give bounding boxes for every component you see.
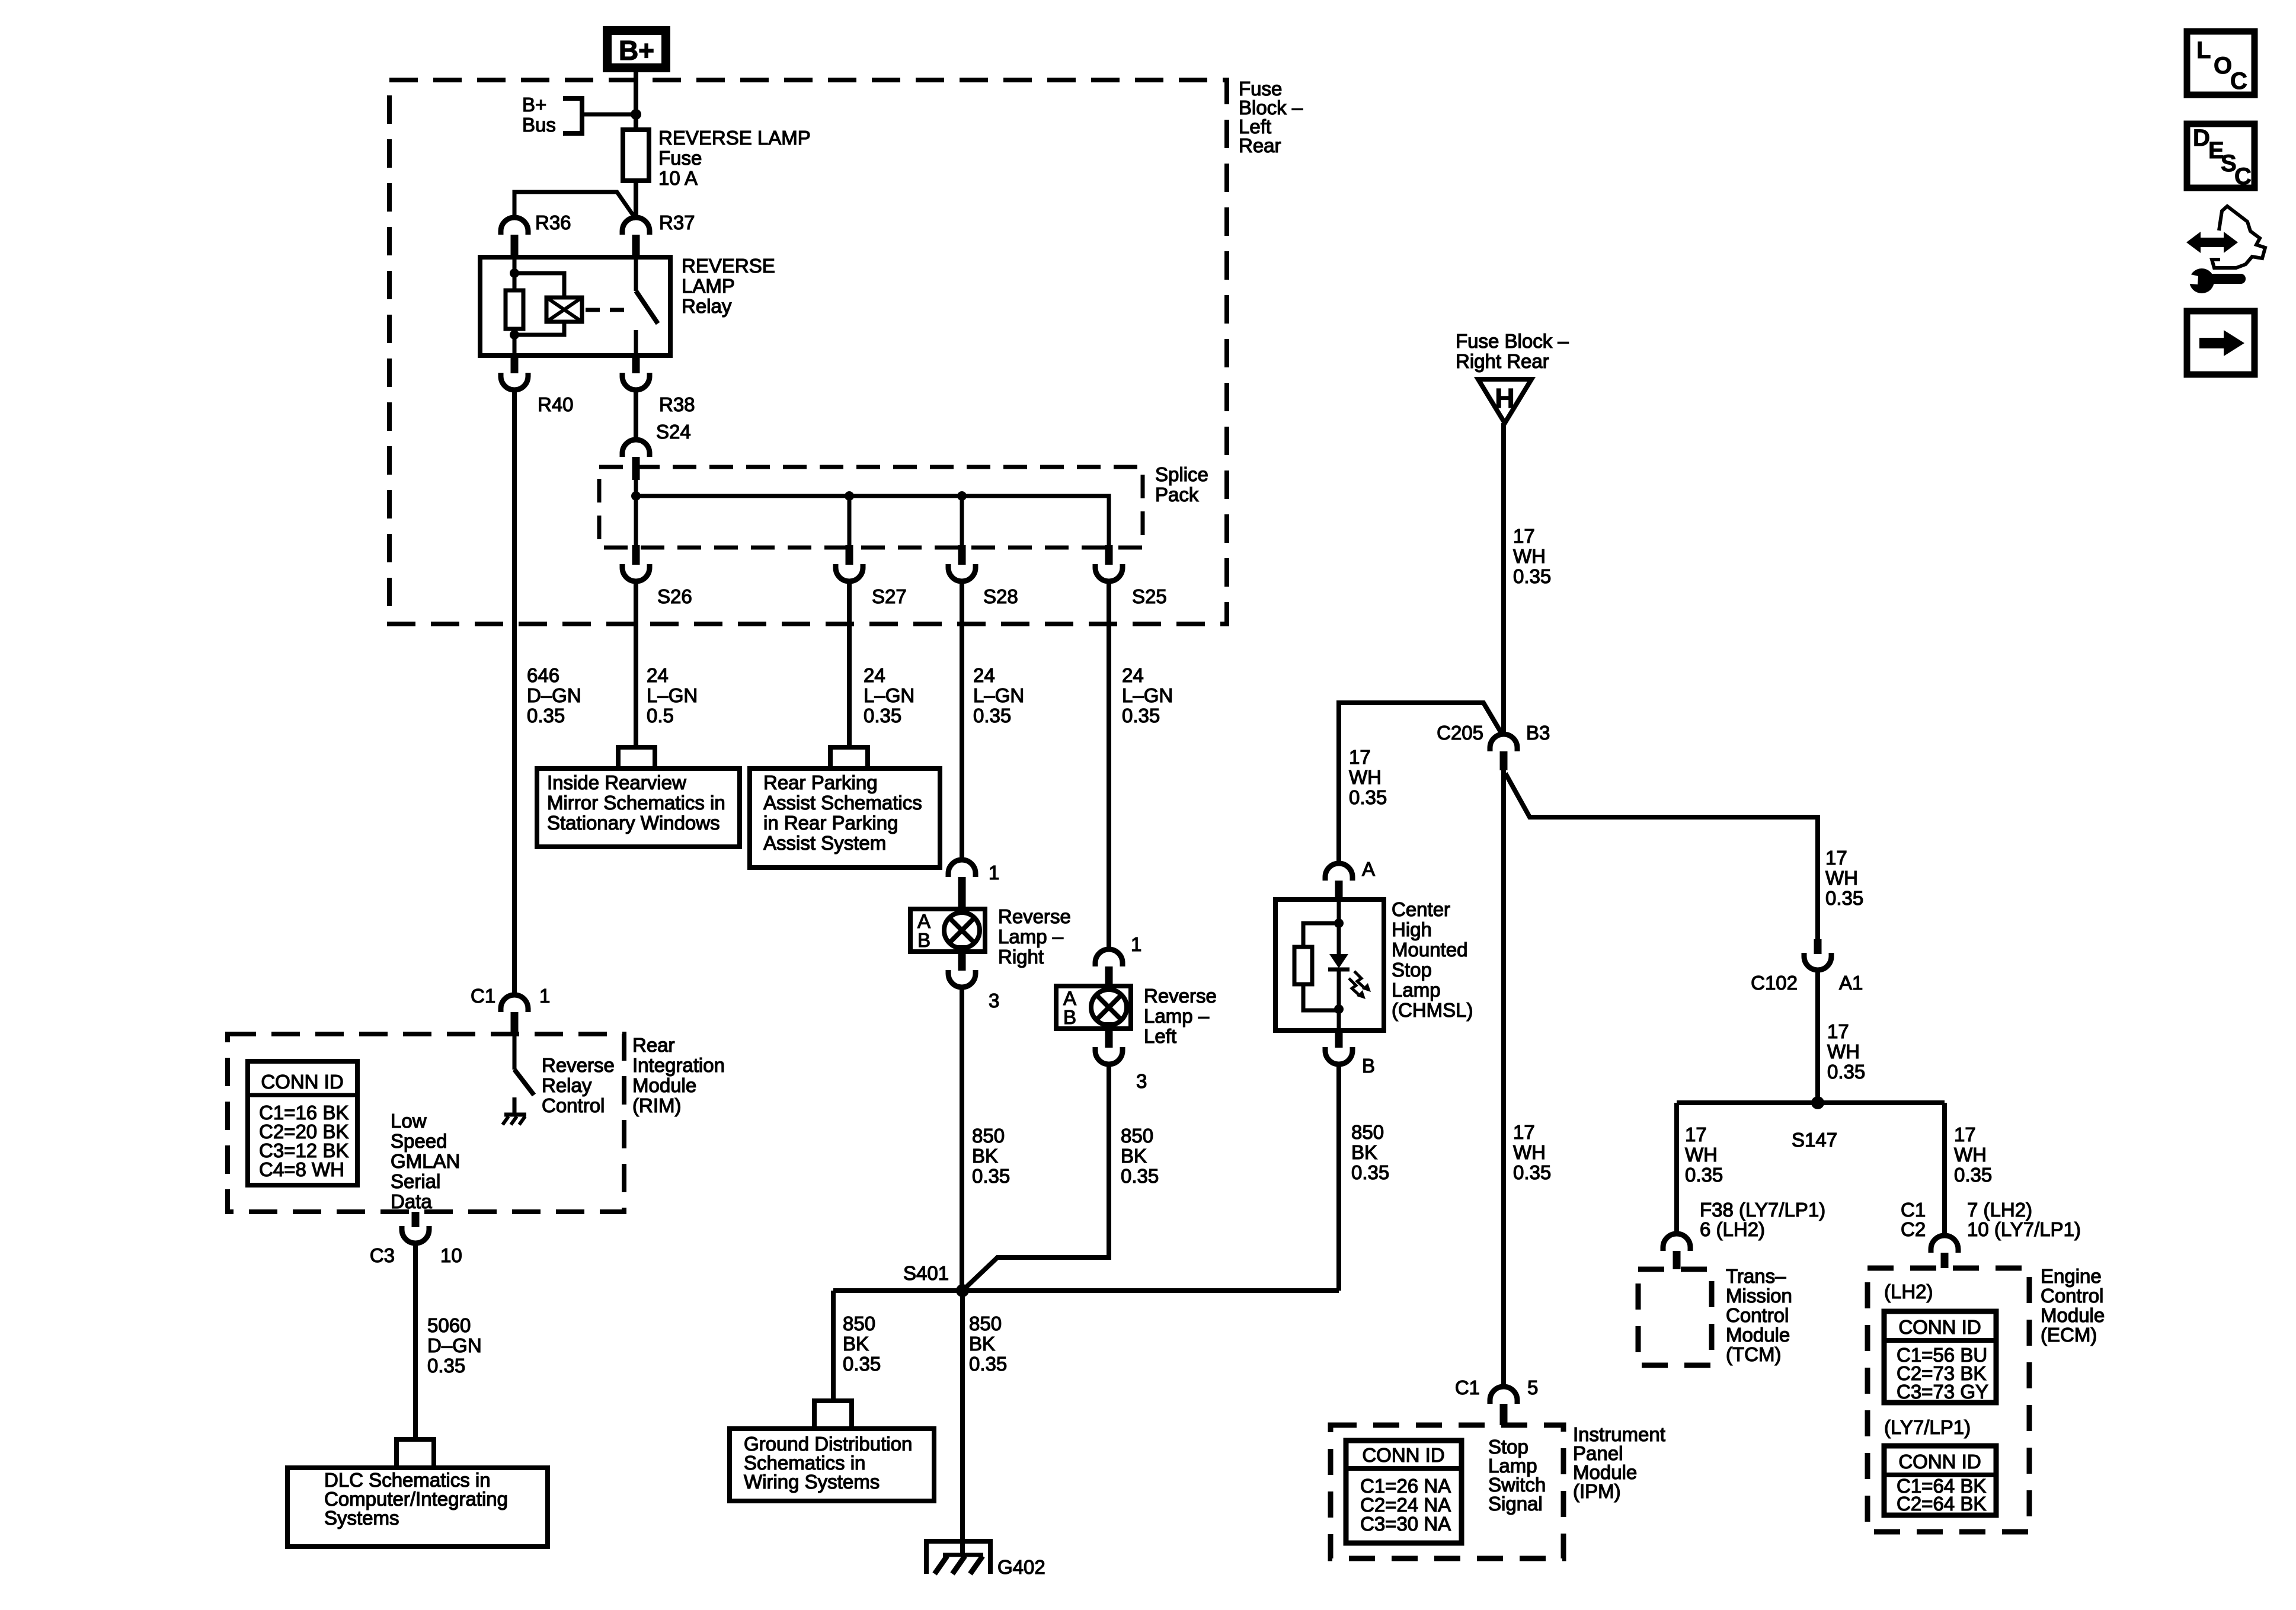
svg-text:0.35: 0.35 <box>1351 1161 1389 1183</box>
svg-text:Right Rear: Right Rear <box>1456 350 1549 372</box>
svg-text:Module: Module <box>2041 1304 2105 1326</box>
svg-text:5060: 5060 <box>427 1314 471 1336</box>
svg-text:1: 1 <box>539 985 550 1007</box>
svg-text:Module: Module <box>1726 1324 1790 1346</box>
svg-text:Relay: Relay <box>682 295 732 317</box>
ground G402 <box>926 1541 990 1574</box>
junction splice S26 <box>631 491 641 501</box>
rear parking assist schematics box <box>750 769 940 868</box>
svg-text:D–GN: D–GN <box>427 1334 482 1356</box>
svg-text:C1: C1 <box>471 985 495 1007</box>
svg-text:WH: WH <box>1685 1144 1718 1166</box>
svg-text:10 (LY7/LP1): 10 (LY7/LP1) <box>1967 1218 2081 1240</box>
svg-text:Trans–: Trans– <box>1726 1265 1786 1287</box>
svg-text:Stop: Stop <box>1392 959 1432 981</box>
svg-text:Pack: Pack <box>1155 484 1199 505</box>
svg-text:Assist System: Assist System <box>763 832 886 854</box>
wire R38 to S24 <box>634 390 638 440</box>
svg-text:BK: BK <box>843 1333 869 1355</box>
connector ECM <box>1931 1235 1958 1253</box>
svg-text:17: 17 <box>1954 1124 1976 1145</box>
icon DESC <box>2187 124 2255 188</box>
svg-text:0.35: 0.35 <box>1513 565 1551 587</box>
svg-text:0.35: 0.35 <box>973 705 1011 726</box>
svg-text:0.35: 0.35 <box>1121 1165 1159 1187</box>
svg-text:Lamp –: Lamp – <box>1144 1005 1210 1027</box>
svg-text:B: B <box>1063 1006 1076 1028</box>
relay actuation dashed link <box>586 308 627 312</box>
svg-text:850: 850 <box>1351 1121 1384 1143</box>
svg-text:C3=30 NA: C3=30 NA <box>1360 1513 1451 1535</box>
svg-text:S28: S28 <box>983 585 1018 607</box>
wire left lamp to S401 <box>962 1064 1109 1291</box>
svg-text:C4=8 WH: C4=8 WH <box>259 1158 344 1180</box>
svg-text:Low: Low <box>391 1110 427 1132</box>
icon wrench <box>2189 268 2214 293</box>
svg-text:B+: B+ <box>619 35 654 66</box>
svg-text:Engine: Engine <box>2041 1265 2102 1287</box>
svg-text:5: 5 <box>1527 1377 1538 1398</box>
connector B CHMSL <box>1335 1030 1343 1048</box>
svg-text:Rear Parking: Rear Parking <box>763 772 878 793</box>
svg-text:WH: WH <box>1827 1041 1860 1062</box>
svg-text:R40: R40 <box>538 393 574 415</box>
TCM dashed outline <box>1638 1269 1712 1365</box>
connector TCM <box>1663 1234 1690 1251</box>
svg-text:WH: WH <box>1954 1144 1987 1166</box>
svg-text:0.35: 0.35 <box>864 705 901 726</box>
connector pin 1 right lamp <box>948 860 976 877</box>
svg-text:24: 24 <box>864 664 885 686</box>
svg-text:24: 24 <box>973 664 995 686</box>
relay coil branch wire <box>513 257 517 290</box>
connector R38 <box>632 356 640 373</box>
svg-text:850: 850 <box>843 1313 875 1334</box>
ground inside RIM <box>513 1097 517 1114</box>
svg-text:(TCM): (TCM) <box>1726 1343 1781 1365</box>
svg-text:WH: WH <box>1513 1141 1546 1163</box>
svg-text:Center: Center <box>1392 898 1450 920</box>
svg-text:WH: WH <box>1825 867 1858 889</box>
junction splice S27 <box>845 491 854 501</box>
svg-text:(CHMSL): (CHMSL) <box>1392 999 1473 1021</box>
svg-text:BK: BK <box>1121 1145 1147 1167</box>
wire 5060 to DLC <box>413 1243 418 1439</box>
connector C102 A1 <box>1814 939 1822 954</box>
svg-text:L: L <box>2196 37 2211 63</box>
relay REVERSE LAMP box <box>480 257 670 356</box>
svg-text:0.35: 0.35 <box>1825 887 1863 909</box>
wire coil bottom return <box>514 322 564 335</box>
CHMSL light emission arrows <box>1354 971 1364 987</box>
svg-text:A: A <box>1362 858 1375 880</box>
connector A CHMSL <box>1325 863 1352 881</box>
wire S401 to G402 <box>960 1291 965 1554</box>
svg-text:BK: BK <box>969 1333 995 1355</box>
svg-text:0.35: 0.35 <box>1349 786 1387 808</box>
svg-text:0.35: 0.35 <box>972 1165 1010 1187</box>
CHMSL LED diode <box>1329 954 1348 968</box>
svg-text:0.35: 0.35 <box>843 1353 881 1375</box>
junction CHMSL bottom <box>1334 1004 1344 1014</box>
svg-text:Serial: Serial <box>391 1170 440 1192</box>
svg-text:Control: Control <box>542 1094 605 1116</box>
IPM dashed outline <box>1331 1425 1563 1558</box>
svg-text:B: B <box>917 929 930 951</box>
svg-text:in Rear Parking: in Rear Parking <box>763 812 898 834</box>
svg-text:GMLAN: GMLAN <box>391 1150 460 1172</box>
connector S27 <box>846 545 853 565</box>
svg-text:Integration: Integration <box>632 1054 725 1076</box>
svg-text:(IPM): (IPM) <box>1573 1480 1621 1502</box>
svg-text:REVERSE LAMP: REVERSE LAMP <box>658 127 811 149</box>
wire fuse to relay pins <box>634 181 638 217</box>
wire S26 to mirror box <box>634 581 638 747</box>
svg-text:D–GN: D–GN <box>527 684 581 706</box>
svg-text:CONN ID: CONN ID <box>1362 1444 1444 1466</box>
svg-text:CONN ID: CONN ID <box>1898 1451 1981 1473</box>
connector S25 <box>1105 545 1113 565</box>
svg-text:Fuse: Fuse <box>658 147 702 169</box>
svg-text:Control: Control <box>1726 1304 1789 1326</box>
reverse relay control switch <box>513 1036 517 1070</box>
fuse block left rear dashed outline <box>389 80 1227 624</box>
svg-text:L–GN: L–GN <box>973 684 1024 706</box>
junction B+ bus <box>631 109 641 120</box>
svg-text:17: 17 <box>1825 847 1847 869</box>
resistor in relay <box>506 290 523 329</box>
svg-text:Speed: Speed <box>391 1130 447 1152</box>
svg-text:3: 3 <box>989 990 999 1012</box>
connector pin 1 left lamp <box>1095 949 1123 966</box>
svg-text:Right: Right <box>998 946 1044 968</box>
svg-text:S24: S24 <box>656 421 691 443</box>
wire S25 to left lamp <box>1107 581 1111 949</box>
junction splice S28 <box>957 491 967 501</box>
splice S147 <box>1811 1096 1824 1109</box>
svg-text:C: C <box>2234 164 2252 190</box>
svg-text:S401: S401 <box>903 1262 949 1284</box>
wire branch to R36 <box>514 192 636 219</box>
svg-text:BK: BK <box>972 1145 998 1167</box>
ground distribution schematics box <box>730 1429 934 1501</box>
connector pin 3 right lamp <box>958 945 966 971</box>
icon next arrow <box>2187 311 2255 375</box>
connector pin 3 left lamp <box>1105 1022 1113 1048</box>
connector S24 <box>622 440 650 457</box>
wire H to C205 <box>1501 423 1506 734</box>
svg-text:6 (LH2): 6 (LH2) <box>1700 1218 1765 1240</box>
svg-text:R38: R38 <box>659 393 695 415</box>
wire S27 to parking box <box>847 581 852 747</box>
splice S401 <box>956 1284 969 1297</box>
svg-text:CONN ID: CONN ID <box>261 1071 343 1093</box>
svg-text:REVERSE: REVERSE <box>682 255 775 277</box>
svg-text:850: 850 <box>1121 1125 1153 1147</box>
svg-text:L–GN: L–GN <box>1122 684 1173 706</box>
wire branch to CHMSL A <box>1339 703 1502 863</box>
wire S28 to right lamp <box>960 581 964 860</box>
junction coil bottom <box>510 330 519 340</box>
svg-text:17: 17 <box>1513 1121 1535 1143</box>
svg-text:Control: Control <box>2041 1285 2103 1307</box>
svg-text:Fuse Block –: Fuse Block – <box>1456 330 1569 352</box>
svg-text:3: 3 <box>1136 1070 1147 1092</box>
svg-text:Mounted: Mounted <box>1392 939 1467 961</box>
svg-text:Rear: Rear <box>632 1034 675 1056</box>
svg-text:0.35: 0.35 <box>1954 1164 1992 1186</box>
IPM CONN ID table <box>1346 1441 1462 1543</box>
fuse block right rear terminal H <box>1478 379 1531 423</box>
inside rearview mirror schematics box <box>537 769 740 847</box>
svg-text:Reverse: Reverse <box>998 905 1071 927</box>
wire to ground distribution <box>831 1291 836 1401</box>
icon harness outline <box>2212 206 2265 268</box>
connector bracket ground distribution box <box>814 1401 852 1429</box>
wire S147 to TCM <box>1674 1103 1679 1234</box>
svg-text:L–GN: L–GN <box>864 684 914 706</box>
svg-text:C102: C102 <box>1751 972 1798 994</box>
svg-text:850: 850 <box>969 1313 1002 1334</box>
svg-text:0.35: 0.35 <box>1513 1161 1551 1183</box>
svg-text:17: 17 <box>1513 525 1535 547</box>
svg-text:Data: Data <box>391 1190 432 1212</box>
svg-text:C205: C205 <box>1437 722 1483 744</box>
connector R36 <box>501 217 528 235</box>
svg-text:F38 (LY7/LP1): F38 (LY7/LP1) <box>1700 1199 1825 1221</box>
svg-text:0.35: 0.35 <box>427 1355 465 1377</box>
fuse REVERSE LAMP 10 A <box>623 130 649 181</box>
svg-text:24: 24 <box>1122 664 1144 686</box>
svg-text:B+: B+ <box>522 94 546 116</box>
svg-text:CONN ID: CONN ID <box>1898 1316 1981 1338</box>
svg-text:D: D <box>2193 125 2210 151</box>
svg-text:B3: B3 <box>1526 722 1550 744</box>
svg-text:C1: C1 <box>1901 1199 1926 1221</box>
connector bracket mirror box <box>618 747 655 769</box>
svg-text:Relay: Relay <box>542 1074 592 1096</box>
B+ bus bar tap <box>563 98 582 133</box>
connector R37 <box>622 217 650 235</box>
junction CHMSL top <box>1334 918 1344 928</box>
svg-text:Stationary Windows: Stationary Windows <box>547 812 720 834</box>
svg-text:S26: S26 <box>657 585 692 607</box>
svg-text:Mirror Schematics in: Mirror Schematics in <box>547 792 725 814</box>
svg-text:B: B <box>1362 1055 1375 1077</box>
connector S28 <box>958 545 966 565</box>
svg-text:WH: WH <box>1513 545 1546 567</box>
reverse lamp right <box>910 909 985 952</box>
svg-text:S147: S147 <box>1792 1129 1837 1151</box>
wire C205 to IPM <box>1501 770 1506 1387</box>
svg-text:High: High <box>1392 918 1432 940</box>
ECM CONN ID table LH2 <box>1884 1311 1996 1403</box>
svg-text:17: 17 <box>1685 1124 1707 1145</box>
svg-text:WH: WH <box>1349 766 1382 788</box>
svg-text:Lamp –: Lamp – <box>998 926 1064 948</box>
svg-text:(LY7/LP1): (LY7/LP1) <box>1884 1416 1971 1438</box>
junction coil top <box>510 268 519 278</box>
reverse lamp left <box>1056 986 1131 1029</box>
svg-text:H: H <box>1495 383 1514 414</box>
connector C205 B3 <box>1490 734 1517 751</box>
svg-text:0.5: 0.5 <box>647 705 674 726</box>
CHMSL internal feed wire <box>1337 900 1341 954</box>
svg-text:G402: G402 <box>997 1556 1045 1578</box>
svg-text:0.35: 0.35 <box>1122 705 1160 726</box>
svg-text:Systems: Systems <box>324 1507 399 1529</box>
svg-text:A1: A1 <box>1839 972 1863 994</box>
wire CHMSL B to S401 <box>1336 1064 1341 1291</box>
svg-text:LAMP: LAMP <box>682 275 735 297</box>
connector C3 pin 10 RIM <box>412 1212 420 1227</box>
svg-text:Wiring Systems: Wiring Systems <box>744 1471 880 1493</box>
svg-text:C2=64 BK: C2=64 BK <box>1897 1493 1986 1515</box>
relay switch <box>634 257 638 291</box>
RIM dashed outline <box>228 1034 624 1212</box>
svg-text:0.35: 0.35 <box>969 1353 1007 1375</box>
svg-text:Splice: Splice <box>1155 463 1208 485</box>
svg-text:0.35: 0.35 <box>527 705 565 726</box>
svg-text:Mission: Mission <box>1726 1285 1792 1307</box>
svg-text:Rear: Rear <box>1239 135 1281 156</box>
svg-text:Left: Left <box>1144 1025 1176 1047</box>
svg-text:(ECM): (ECM) <box>2041 1324 2097 1346</box>
svg-text:S25: S25 <box>1132 585 1167 607</box>
connector C1 pin 1 RIM <box>501 995 528 1012</box>
relay coil winding <box>546 297 582 322</box>
wire C102 to S147 <box>1815 970 1820 1103</box>
svg-text:10: 10 <box>440 1244 462 1266</box>
svg-text:C3: C3 <box>370 1244 395 1266</box>
svg-text:10 A: 10 A <box>658 167 698 189</box>
svg-text:Assist Schematics: Assist Schematics <box>763 792 922 814</box>
connector C1 pin 5 IPM <box>1490 1387 1517 1404</box>
connector bracket DLC box <box>396 1439 434 1468</box>
icon LOC <box>2187 31 2255 95</box>
connector bracket parking box <box>830 747 868 769</box>
wire S147 bus <box>1677 1100 1945 1105</box>
svg-text:BK: BK <box>1351 1141 1377 1163</box>
connector S26 <box>632 545 640 565</box>
svg-text:17: 17 <box>1349 746 1371 768</box>
connector R40 <box>511 356 519 373</box>
ECM CONN ID table LY7 <box>1884 1446 1996 1515</box>
svg-text:24: 24 <box>647 664 669 686</box>
svg-text:850: 850 <box>972 1125 1005 1147</box>
svg-text:O: O <box>2214 53 2232 79</box>
svg-text:R37: R37 <box>659 212 695 233</box>
svg-text:0.35: 0.35 <box>1685 1164 1723 1186</box>
ECM dashed outline <box>1868 1268 2029 1532</box>
ground bus wire <box>833 1288 1339 1293</box>
wire to relay coil <box>514 273 564 297</box>
wire right lamp to S401 <box>960 987 964 1291</box>
DLC schematics box <box>287 1468 548 1547</box>
svg-text:C1: C1 <box>1455 1377 1480 1398</box>
splice pack bus wire <box>634 480 638 496</box>
CHMSL lamp box <box>1275 900 1384 1030</box>
svg-text:1: 1 <box>989 862 999 884</box>
svg-text:C2: C2 <box>1901 1218 1926 1240</box>
svg-text:R36: R36 <box>535 212 571 233</box>
svg-text:(RIM): (RIM) <box>632 1094 681 1116</box>
svg-text:Module: Module <box>632 1074 696 1096</box>
RIM CONN ID table <box>248 1061 357 1185</box>
svg-text:17: 17 <box>1827 1020 1849 1042</box>
svg-text:Signal: Signal <box>1488 1493 1543 1515</box>
svg-text:0.35: 0.35 <box>1827 1061 1865 1083</box>
battery feed terminal B+ <box>607 31 666 68</box>
svg-text:Reverse: Reverse <box>1144 985 1217 1007</box>
svg-text:Reverse: Reverse <box>542 1054 615 1076</box>
icon harness double arrow <box>2186 232 2238 253</box>
svg-text:L–GN: L–GN <box>647 684 698 706</box>
wire 646 D-GN from R40 to RIM <box>512 390 517 995</box>
svg-text:646: 646 <box>527 664 559 686</box>
svg-text:Inside Rearview: Inside Rearview <box>547 772 686 793</box>
svg-text:S27: S27 <box>872 585 907 607</box>
svg-text:(LH2): (LH2) <box>1884 1281 1933 1302</box>
svg-text:7 (LH2): 7 (LH2) <box>1967 1199 2032 1221</box>
svg-text:C3=73 GY: C3=73 GY <box>1897 1381 1988 1403</box>
CHMSL internal resistor <box>1303 923 1339 947</box>
svg-text:1: 1 <box>1131 933 1141 955</box>
svg-text:C: C <box>2230 68 2247 94</box>
svg-text:Lamp: Lamp <box>1392 979 1441 1001</box>
wire C205 branch to C102 <box>1505 773 1818 939</box>
wire S147 to ECM <box>1942 1103 1947 1235</box>
wire B+ feed into fuse block <box>634 72 638 130</box>
splice pack dashed outline <box>599 467 1143 548</box>
svg-text:Bus: Bus <box>522 114 556 136</box>
